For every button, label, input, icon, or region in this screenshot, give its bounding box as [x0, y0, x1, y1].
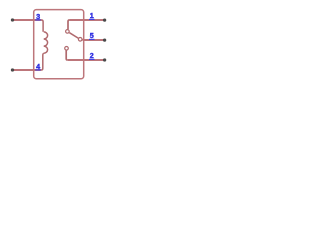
pin terminal dot 1: [103, 18, 106, 21]
svg-text:4: 4: [36, 62, 40, 71]
wire common to pin 5: [83, 39, 105, 41]
pin 4 leg highlight: [35, 69, 41, 71]
pin 2 leg highlight: [89, 58, 95, 60]
coil bottom lead: [41, 53, 43, 70]
pin 5 leg highlight: [89, 38, 95, 40]
pin terminal dot 3: [11, 18, 14, 21]
wire pin 4: [13, 69, 42, 71]
pin terminal dot 2: [103, 58, 106, 61]
svg-text:5: 5: [90, 31, 94, 40]
svg-text:2: 2: [90, 51, 94, 60]
coil L1: [44, 32, 48, 53]
pin 3 leg highlight: [35, 19, 41, 21]
pin 1 leg highlight: [89, 18, 95, 20]
svg-text:1: 1: [90, 11, 94, 20]
common contact circle: [78, 38, 82, 42]
pin terminal dot 4: [11, 68, 14, 71]
coil top lead: [42, 20, 44, 32]
wire pin 1: [69, 19, 104, 21]
NC contact lead: [68, 20, 69, 29]
relay body U1: [34, 10, 84, 79]
svg-text:3: 3: [36, 12, 40, 21]
switch arm: [69, 33, 79, 39]
pin terminal dot 5: [103, 38, 106, 41]
NO contact circle: [65, 47, 69, 51]
NO contact lead: [66, 50, 67, 60]
NC contact circle: [66, 30, 70, 34]
wire pin 2: [68, 59, 105, 61]
wire pin 3: [13, 19, 42, 21]
